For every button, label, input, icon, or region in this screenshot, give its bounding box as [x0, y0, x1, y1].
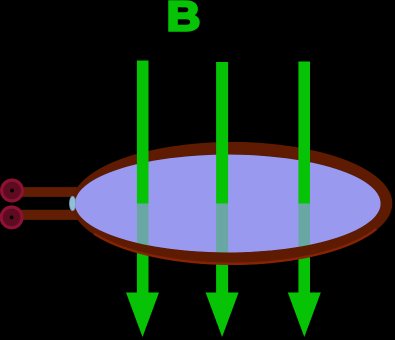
field arrow 1	[126, 61, 159, 338]
loop rim (brown ring, outer ellipse minus offset inner hole)	[72, 142, 393, 265]
terminal post bottom	[1, 207, 22, 228]
wire top lead	[8, 187, 83, 197]
terminal post top	[2, 180, 23, 201]
field arrow 3	[288, 62, 321, 338]
svg-text:B: B	[167, 0, 201, 39]
field arrow 2	[206, 62, 239, 337]
wire bottom lead	[8, 210, 83, 220]
loop rim outer-edge highlight (red-brown bottom edge line)	[94, 229, 376, 264]
loop fill (purple top surface)	[75, 155, 381, 253]
node gap cross-section (light blue)	[69, 196, 75, 210]
loop front rim redraw (opaque brown bottom band)	[100, 221, 370, 264]
loop front-half translucent overlay	[75, 204, 381, 253]
